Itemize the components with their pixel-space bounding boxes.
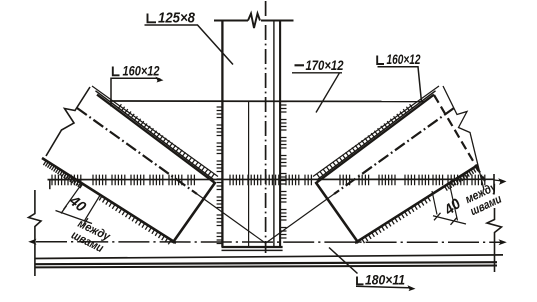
angle symbol 125x8 bbox=[148, 14, 157, 23]
vertical member centerline (dash-dot) bbox=[265, 1, 267, 253]
left diagonal L160x12: top thin edge bbox=[92, 86, 218, 177]
weld ticks on member left edge bbox=[217, 107, 223, 244]
gusset-to-chord weld line bbox=[48, 178, 495, 180]
arrow weld line right end bbox=[498, 178, 506, 185]
label leader 180x11 bbox=[329, 248, 412, 289]
vertical member L125x8: top cap line with break zigzag bbox=[214, 14, 294, 29]
right diagonal toe edge bbox=[355, 165, 478, 243]
chord left break line with zigzag bbox=[29, 190, 42, 276]
arrow on left 160x12 shelf bbox=[156, 77, 164, 83]
plate symbol 170x12 bbox=[295, 64, 305, 66]
right diagonal heel (double thick line) bbox=[317, 91, 436, 181]
right 40 dimension extension lines bbox=[432, 186, 458, 221]
svg-text:160×12: 160×12 bbox=[387, 52, 421, 67]
arrow on 180x11 shelf bbox=[408, 285, 416, 291]
right diagonal L160x12: top thin edge bbox=[313, 86, 439, 177]
intermittent weld ticks along weld line bbox=[52, 175, 485, 186]
left diagonal break line with zigzag bbox=[46, 87, 90, 156]
chord right break line with zigzag bbox=[487, 208, 502, 272]
left diagonal end cut bbox=[173, 182, 216, 243]
right diagonal dashed cut line bbox=[434, 95, 485, 181]
svg-text:170×12: 170×12 bbox=[306, 58, 344, 73]
right diagonal end cut bbox=[316, 182, 359, 243]
weld ticks under right toe bbox=[362, 167, 478, 243]
svg-text:125×8: 125×8 bbox=[158, 10, 196, 27]
bottom chord top edge bbox=[35, 255, 504, 259]
arrow chord axis left end bbox=[28, 239, 36, 245]
left 40 dimension line with serifs bbox=[56, 206, 93, 226]
arrow chord axis right end bbox=[499, 239, 507, 245]
right diagonal break line with zigzag bbox=[443, 86, 484, 190]
right diagonal centerline dash-dot bbox=[334, 108, 454, 194]
weld ticks on member right edge bbox=[281, 102, 287, 239]
label leader left 160x12 (shelf+drop+arrow) bbox=[111, 78, 161, 106]
label leader 170x12 bbox=[292, 73, 342, 113]
label leader right 160x12 bbox=[378, 67, 422, 102]
left 40 dimension extension lines bbox=[64, 184, 101, 222]
weld ticks under left toe bbox=[43, 161, 171, 245]
weld line left end hook bbox=[49, 180, 51, 190]
vertical member left edge bbox=[221, 21, 223, 248]
right diagonal axis continuation to node bbox=[265, 194, 334, 243]
angle symbol right 160x12 bbox=[377, 56, 384, 65]
weld ticks above left heel bbox=[118, 104, 214, 178]
angle symbol 180x11 bbox=[357, 277, 364, 285]
bottom chord axis (dash-dot) bbox=[36, 241, 502, 244]
left diagonal toe edge bbox=[42, 158, 176, 243]
vertical member right edge (double line) bbox=[273, 21, 275, 248]
vertical member bottom end (double cap) bbox=[222, 246, 283, 248]
weld line right end hook bbox=[493, 174, 495, 195]
right 40 dimension line with serifs bbox=[433, 213, 466, 225]
svg-text:180×11: 180×11 bbox=[365, 272, 405, 287]
weld ticks above right heel bbox=[317, 104, 413, 178]
bottom chord lower edges (close pair) bbox=[35, 262, 498, 264]
gusset plate top edge bbox=[110, 100, 425, 103]
left diagonal axis continuation to node bbox=[197, 194, 266, 243]
svg-text:160×12: 160×12 bbox=[123, 64, 160, 79]
weld line right arrow bbox=[494, 180, 503, 181]
angle symbol left 160x12 bbox=[113, 67, 120, 76]
left diagonal centerline dash-dot bbox=[77, 108, 197, 194]
label leader 125x8 bbox=[145, 25, 234, 65]
left diagonal heel (double thick line) bbox=[96, 91, 215, 181]
vertical member inner leg line bbox=[248, 101, 250, 247]
